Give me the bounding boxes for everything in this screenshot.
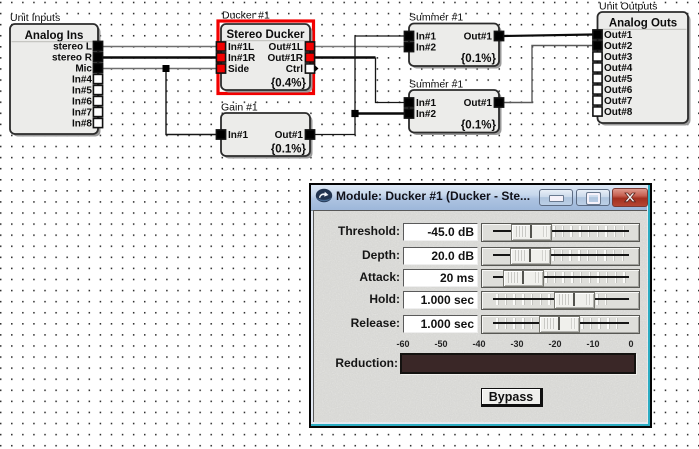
wire junction branch to Summer#2 In#2: [355, 112, 405, 115]
svg-text:Analog Outs: Analog Outs: [609, 18, 677, 30]
svg-text:In#7: In#7: [72, 108, 92, 119]
svg-text:Out#3: Out#3: [604, 52, 633, 63]
pin Analog Ins In#8: [93, 118, 102, 127]
dialog row Attack: value box: [403, 269, 478, 287]
svg-text:Out#1: Out#1: [464, 32, 493, 43]
dialog row Release: value box: [403, 315, 478, 333]
pin Summer1 In#1: [404, 31, 413, 40]
junction at Gain net: [351, 110, 358, 117]
svg-text:Summer #1: Summer #1: [409, 79, 463, 91]
svg-text:Out#7: Out#7: [604, 96, 633, 107]
pin Ducker Out#1R: [305, 53, 314, 62]
svg-text:Gain #1: Gain #1: [221, 102, 258, 114]
wire Summer#2 Out#1 to Analog Outs Out#2: [503, 46, 593, 103]
pin Analog Outs Out#7: [593, 96, 602, 105]
pin Analog Ins stereo R: [93, 52, 102, 61]
slider Attack: [481, 269, 640, 288]
title separator Analog Ins: [12, 41, 97, 42]
slider Depth: [481, 247, 640, 266]
block Analog Outs (Unit Outputs): [598, 12, 691, 126]
svg-text:Out#1: Out#1: [604, 30, 633, 41]
svg-text:In#5: In#5: [72, 86, 92, 97]
svg-text:Out#6: Out#6: [604, 85, 633, 96]
svg-text:Out#1: Out#1: [464, 98, 493, 109]
pin Analog Ins In#7: [93, 107, 102, 116]
dialog title bar: [311, 185, 647, 211]
Reduction label: [311, 356, 398, 370]
dialog content layer: [309, 183, 652, 428]
svg-text:Side: Side: [228, 64, 250, 75]
pin Gain In#1: [216, 130, 225, 139]
slider Threshold: [481, 223, 640, 242]
svg-text:Out#4: Out#4: [604, 63, 633, 74]
svg-text:Out#5: Out#5: [604, 74, 633, 85]
svg-text:Out#1R: Out#1R: [267, 53, 303, 64]
dialog white frame: [311, 185, 648, 424]
svg-text:Mic: Mic: [75, 64, 92, 75]
minimize button: [539, 189, 573, 206]
svg-text:Summer #1: Summer #1: [409, 12, 463, 24]
pin Ducker Side: [216, 64, 225, 73]
Bypass button: [481, 388, 543, 407]
wire branch Mic junction to Gain In#1: [166, 69, 217, 135]
title separator Analog Outs: [599, 29, 687, 30]
svg-text:stereo R: stereo R: [52, 53, 93, 64]
pin Analog Ins Mic: [93, 63, 102, 72]
svg-text:{0.1%}: {0.1%}: [271, 144, 307, 156]
pin Analog Ins In#5: [93, 85, 102, 94]
junction at Mic wire: [163, 65, 170, 72]
pin Ducker Ctrl with arrow: [314, 65, 319, 73]
pin Analog Outs Out#6: [593, 85, 602, 94]
pin Ducker Ctrl square: [305, 64, 314, 73]
pin Analog Outs Out#2: [593, 41, 602, 50]
svg-text:In#6: In#6: [72, 97, 92, 108]
wire Summer#1 Out#1 to Analog Outs Out#1: [503, 35, 593, 37]
block Ducker #1 Stereo Ducker: [221, 24, 313, 93]
pin Summer2 Out#1: [494, 98, 503, 107]
pin Analog Outs Out#5: [593, 74, 602, 83]
dialog teal frame: [311, 185, 650, 426]
pin Summer2 In#2: [404, 109, 413, 118]
block Gain #1: [221, 113, 313, 159]
svg-text:Unit Outputs: Unit Outputs: [599, 1, 657, 13]
pin Gain Out#1: [305, 130, 314, 139]
block Summer #1 (lower): [409, 90, 502, 135]
wire Ducker Out#1L to Summer#1 In#2: [314, 46, 405, 48]
restore button: [576, 189, 610, 206]
pin Ducker In#1L: [216, 42, 225, 51]
dialog title text: [336, 189, 530, 203]
Reduction meter: [400, 353, 636, 374]
dialog row Depth: value box: [403, 247, 478, 265]
svg-text:Unit Inputs: Unit Inputs: [10, 12, 60, 24]
svg-text:In#1R: In#1R: [228, 53, 256, 64]
dialog row Hold: value box: [403, 291, 478, 309]
pin Analog Outs Out#1: [593, 30, 602, 39]
svg-text:{0.4%}: {0.4%}: [271, 78, 307, 90]
meter scale numbers: [389, 339, 417, 349]
wire Mic to Ducker Side: [102, 68, 217, 70]
pin Analog Ins In#4: [93, 74, 102, 83]
dialog row Attack: label: [311, 270, 400, 284]
pin Ducker Out#1L: [305, 42, 314, 51]
svg-text:Analog Ins: Analog Ins: [25, 30, 84, 42]
slider Hold: [481, 291, 640, 310]
svg-text:stereo L: stereo L: [53, 42, 92, 53]
svg-text:Stereo Ducker: Stereo Ducker: [227, 29, 306, 41]
dialog row Threshold: value box: [403, 223, 478, 241]
dialog row Threshold: label: [311, 224, 400, 238]
dialog row Hold: label: [311, 292, 400, 306]
svg-text:In#1: In#1: [416, 98, 436, 109]
svg-text:In#1L: In#1L: [228, 42, 254, 53]
close button: [612, 188, 648, 207]
svg-text:Ctrl: Ctrl: [286, 64, 303, 75]
dialog client area: [313, 210, 647, 422]
selection frame of Ducker #1: [218, 21, 314, 94]
wire Gain Out#1 to Summer#1 In#1: [314, 36, 405, 135]
pin Ducker In#1R: [216, 53, 225, 62]
pin Summer1 In#2: [404, 42, 413, 51]
svg-text:In#2: In#2: [416, 43, 436, 54]
block U1 Analog Ins (Unit Inputs): [10, 24, 101, 137]
dialog icon: [315, 188, 333, 204]
slider Release: [481, 315, 640, 334]
pin Analog Ins In#6: [93, 96, 102, 105]
svg-text:Out#1L: Out#1L: [269, 42, 303, 53]
dialog row Depth: label: [311, 248, 400, 262]
svg-text:In#4: In#4: [72, 75, 92, 86]
block Summer #1 (upper): [409, 24, 502, 69]
svg-text:Out#1: Out#1: [275, 130, 304, 141]
pin Summer2 In#1: [404, 98, 413, 107]
svg-text:Out#2: Out#2: [604, 41, 633, 52]
pin Analog Outs Out#3: [593, 52, 602, 61]
svg-text:In#2: In#2: [416, 109, 436, 120]
dialog row Release: label: [311, 316, 400, 330]
wire stereo L to Ducker In#1L: [102, 46, 217, 48]
svg-text:In#8: In#8: [72, 119, 92, 130]
pin Summer1 Out#1: [494, 31, 503, 40]
wire stereo R to Ducker In#1R: [102, 56, 217, 58]
svg-text:Out#8: Out#8: [604, 107, 633, 118]
dialog window Module: Ducker #1: [309, 183, 652, 428]
pin Analog Outs Out#8: [593, 107, 602, 116]
svg-text:{0.1%}: {0.1%}: [461, 120, 497, 132]
pin Analog Ins stereo L: [93, 41, 102, 50]
title separator Stereo Ducker: [223, 40, 310, 41]
wire Ducker Out#1R to Summer#2 In#1: [314, 56, 376, 58]
pin Analog Outs Out#4: [593, 63, 602, 72]
svg-text:In#1: In#1: [228, 130, 248, 141]
svg-text:{0.1%}: {0.1%}: [461, 53, 497, 65]
svg-text:In#1: In#1: [416, 32, 436, 43]
